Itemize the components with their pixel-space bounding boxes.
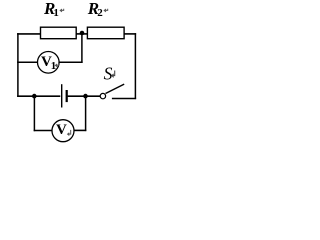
resistor R1: [41, 27, 77, 39]
voltmeter V: [52, 120, 74, 142]
switch S pivot: [100, 93, 105, 98]
label S: [104, 64, 115, 84]
wire R1-R2 segment: [76, 33, 87, 35]
resistor R2: [87, 27, 124, 39]
wire V1 right lead: [59, 61, 82, 63]
wire right rail: [134, 33, 136, 99]
wire battery-switch segment: [68, 95, 101, 97]
wire V right riser: [85, 96, 87, 131]
wire V left lead: [34, 130, 53, 132]
svg-text:1: 1: [51, 60, 57, 72]
wire top-left segment: [17, 33, 41, 35]
label R1: [43, 0, 64, 19]
junction node A: [80, 31, 85, 36]
wire V1 riser: [81, 33, 83, 63]
svg-text:2: 2: [97, 7, 103, 19]
battery long plate: [61, 84, 63, 107]
svg-text:1: 1: [53, 7, 59, 19]
svg-text:V: V: [56, 122, 67, 138]
voltmeter V1: [38, 52, 60, 74]
wire V right lead: [74, 129, 87, 131]
wire V left drop: [33, 96, 35, 131]
wire left rail: [17, 33, 19, 97]
wire switch fixed contact: [112, 98, 136, 100]
wire V1 left lead: [17, 61, 38, 63]
label R2: [87, 0, 108, 19]
wire top-right segment: [124, 33, 136, 35]
battery short plate: [66, 90, 68, 102]
svg-text:S: S: [104, 64, 113, 84]
wire left-battery segment: [17, 95, 60, 97]
junction node B: [83, 94, 88, 99]
switch S lever: [106, 84, 125, 93]
junction node C: [32, 94, 37, 99]
